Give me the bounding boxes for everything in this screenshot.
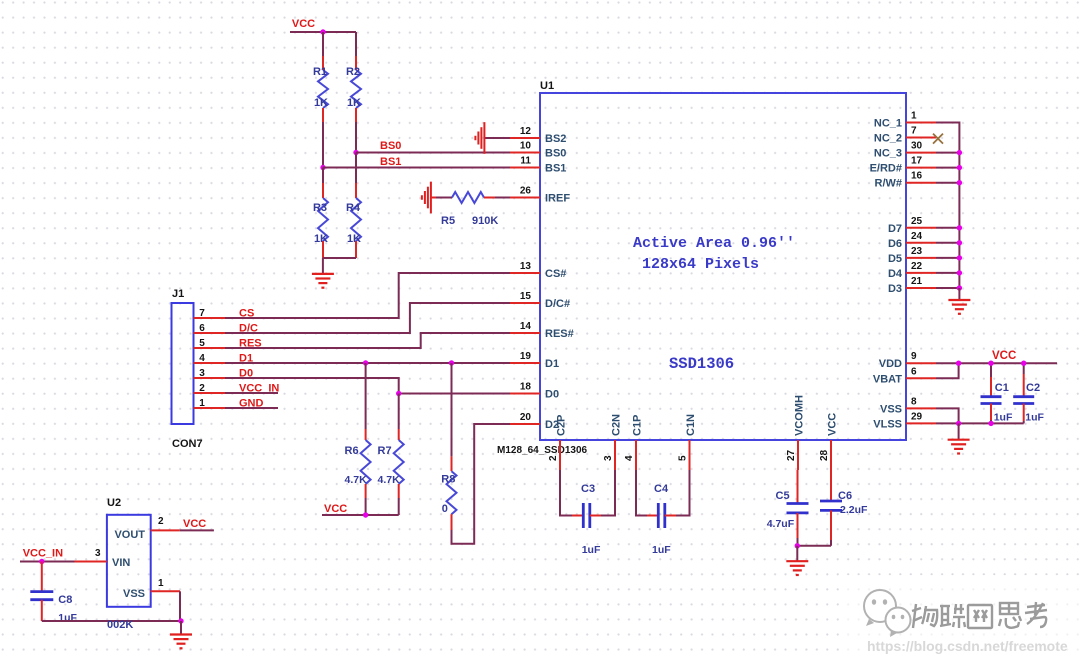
junction bus/D4: [957, 270, 962, 275]
svg-text:R2: R2: [346, 66, 360, 78]
svg-text:NC_3: NC_3: [874, 148, 902, 160]
svg-text:C2N: C2N: [611, 414, 623, 436]
wire BS1 net: [323, 167, 510, 169]
svg-text:7: 7: [199, 308, 205, 319]
svg-text:D3: D3: [888, 283, 902, 295]
U2 pin 1 VSS: [151, 578, 180, 591]
junction bus/D6: [957, 240, 962, 245]
svg-text:R6: R6: [345, 445, 359, 457]
ground (U2): [180, 621, 182, 634]
junction bus/NC_3: [957, 150, 962, 155]
ground (sideways) at BS2: [475, 122, 484, 154]
U1 pin 11 (BS1) left: [510, 156, 566, 175]
svg-text:21: 21: [911, 276, 923, 287]
U1 pin 26 (IREF) left: [510, 186, 570, 205]
wire R3-R4 bottom: [323, 257, 356, 259]
wire BS2 pin to ground: [484, 137, 510, 139]
svg-text:910K: 910K: [472, 215, 498, 227]
wire D7 to bus: [936, 227, 959, 229]
junction R1/BS1: [320, 165, 325, 170]
svg-text:BS1: BS1: [380, 156, 401, 168]
svg-text:3: 3: [603, 455, 614, 461]
wire CS from J1 to CS# pin: [225, 273, 510, 318]
junction bus/R/W#: [957, 180, 962, 185]
wire VBAT up to VDD line: [936, 363, 959, 378]
svg-text:VCC: VCC: [183, 518, 206, 530]
svg-text:26: 26: [520, 186, 532, 197]
J1 pin 1 (GND): [194, 398, 226, 409]
ground (C5/C6): [796, 546, 798, 561]
U1 pin 8 (VSS) right: [880, 396, 936, 415]
watermark logo (chat bubbles): [864, 590, 911, 637]
wire BS0 net: [356, 152, 510, 154]
junction VDD/C2: [1021, 361, 1026, 366]
U1 pin 25 (D7) right: [888, 216, 936, 235]
svg-text:3: 3: [95, 548, 101, 559]
svg-text:1K: 1K: [347, 97, 361, 109]
junction R6/VCC wire: [363, 512, 368, 517]
junction R2/BS0: [353, 150, 358, 155]
svg-text:20: 20: [520, 412, 532, 423]
svg-text:VSS: VSS: [880, 403, 902, 415]
svg-text:U1: U1: [540, 80, 554, 92]
svg-text:IREF: IREF: [545, 193, 570, 205]
wire VSS down to VLSS line: [936, 408, 959, 423]
wire D4 to bus: [936, 272, 959, 274]
U1 pin 7 (NC_2) right: [874, 126, 936, 145]
wire D6 to bus: [936, 242, 959, 244]
wire C3 to C2N: [601, 470, 615, 516]
svg-text:R3: R3: [313, 202, 327, 214]
svg-text:C4: C4: [654, 483, 669, 495]
svg-text:2: 2: [199, 383, 205, 394]
junction VLSS/C1: [988, 421, 993, 426]
J1 pin 4 (D1): [194, 353, 226, 364]
svg-text:22: 22: [911, 261, 923, 272]
svg-text:E/RD#: E/RD#: [870, 163, 902, 175]
svg-text:1uF: 1uF: [582, 544, 601, 556]
U1 pin 24 (D6) right: [888, 231, 936, 250]
power port VCC (R6/R7 bottom): [322, 503, 366, 515]
wire VCC_IN to VIN: [20, 561, 75, 563]
svg-text:4.7K: 4.7K: [345, 474, 368, 486]
U1 pin 16 (R/W#) right: [875, 171, 937, 190]
svg-text:3: 3: [199, 368, 205, 379]
wire C2P down: [560, 470, 572, 516]
resistor R6 4.7K: [345, 363, 371, 515]
wire GND stub from J1: [225, 407, 278, 409]
svg-text:1K: 1K: [347, 233, 361, 245]
svg-text:D1: D1: [545, 358, 559, 370]
capacitor C5 4.7uF: [767, 470, 809, 546]
U1 pin 1 (NC_1) right: [874, 111, 936, 130]
svg-text:NC_2: NC_2: [874, 133, 902, 145]
junction bus/D3: [957, 285, 962, 290]
svg-text:VDD: VDD: [879, 358, 902, 370]
svg-text:C1: C1: [995, 382, 1009, 394]
resistor R2 1K: [346, 32, 361, 122]
svg-text:1uF: 1uF: [1025, 412, 1044, 424]
svg-text:BS2: BS2: [545, 133, 566, 145]
regulator U2 body: [107, 497, 151, 607]
wire D1 from J1 to D1 pin: [225, 362, 510, 364]
wire bus to ground (top right): [958, 288, 960, 300]
svg-text:VLSS: VLSS: [873, 418, 902, 430]
watermark text (CJK glyph shapes): [913, 605, 938, 629]
svg-text:VCOMH: VCOMH: [794, 395, 806, 436]
wire NC_1 to bus: [936, 123, 959, 289]
U1 pin 21 (D3) right: [888, 276, 936, 295]
resistor R3 1K: [313, 168, 328, 259]
U1 pin 22 (D4) right: [888, 261, 936, 280]
svg-text:VCC: VCC: [827, 413, 839, 436]
resistor R5 910K: [431, 192, 498, 227]
svg-text:17: 17: [911, 156, 923, 167]
junction D1/R8: [449, 360, 454, 365]
U1 pin 17 (E/RD#) right: [870, 156, 936, 175]
ground (VSS/VLSS): [958, 423, 960, 439]
wire R8 to D2 pin: [452, 424, 511, 544]
svg-text:13: 13: [520, 261, 532, 272]
svg-text:R1: R1: [313, 66, 327, 78]
U1 pin 5 (C1N) bottom: [678, 414, 698, 470]
ground under R3/R4: [322, 258, 324, 274]
svg-text:https://blog.csdn.net/freemote: https://blog.csdn.net/freemote: [867, 638, 1068, 654]
svg-text:VCC: VCC: [992, 350, 1016, 362]
svg-text:D7: D7: [888, 223, 902, 235]
capacitor C4 1uF: [647, 483, 676, 556]
svg-text:C2: C2: [1026, 382, 1040, 394]
U1 pin 28 (VCC) bottom: [819, 413, 839, 470]
svg-text:C8: C8: [58, 594, 72, 606]
svg-text:4.7K: 4.7K: [378, 474, 401, 486]
wire C4 to C1N: [676, 470, 690, 516]
svg-text:12: 12: [520, 126, 532, 137]
svg-text:4: 4: [199, 353, 205, 364]
resistor R7 4.7K: [378, 394, 404, 516]
U2 pin 2 VOUT: [151, 516, 180, 530]
junction D1/R6: [363, 360, 368, 365]
svg-text:1uF: 1uF: [994, 412, 1013, 424]
wire RES from J1 to RES# pin: [225, 333, 510, 348]
U1 pin 19 (D1) left: [510, 351, 559, 370]
svg-text:1: 1: [199, 398, 205, 409]
svg-text:19: 19: [520, 351, 532, 362]
svg-text:C2P: C2P: [556, 415, 568, 436]
svg-text:D/C#: D/C#: [545, 298, 570, 310]
svg-text:0: 0: [442, 503, 448, 515]
wire VCC_IN stub from J1: [225, 392, 278, 394]
svg-text:D4: D4: [888, 268, 903, 280]
U1 pin 6 (VBAT) right: [873, 366, 936, 385]
junction C5/ground: [795, 543, 800, 548]
svg-text:SSD1306: SSD1306: [669, 355, 734, 373]
connector J1 CON7: [172, 288, 203, 450]
svg-text:11: 11: [520, 156, 531, 167]
svg-text:BS0: BS0: [545, 148, 566, 160]
svg-text:4.7uF: 4.7uF: [767, 518, 795, 530]
junction VSS/VLSS: [956, 421, 961, 426]
U1 pin 13 (CS#) left: [510, 261, 566, 280]
svg-text:18: 18: [520, 382, 532, 393]
ground (sideways) at R5: [422, 182, 431, 214]
svg-text:24: 24: [911, 231, 923, 242]
svg-text:R5: R5: [441, 215, 455, 227]
svg-text:27: 27: [786, 449, 797, 461]
no-connect X on NC_2: [933, 134, 943, 144]
svg-text:R7: R7: [378, 445, 392, 457]
svg-text:1uF: 1uF: [652, 544, 671, 556]
wire VDD line: [936, 362, 1057, 364]
svg-text:4: 4: [624, 455, 635, 461]
capacitor C3 1uF: [572, 483, 601, 556]
wire VOUT to VCC: [180, 529, 214, 531]
svg-text:15: 15: [520, 291, 532, 302]
junction VCC/R1: [320, 29, 325, 34]
J1 pin 6 (D/C): [194, 323, 226, 334]
svg-text:VIN: VIN: [112, 557, 130, 569]
svg-text:VBAT: VBAT: [873, 373, 902, 385]
svg-text:CON7: CON7: [172, 438, 203, 450]
wire D0 from J1 to D0 pin: [225, 378, 510, 394]
svg-text:6: 6: [911, 366, 917, 377]
capacitor C6 2.2uF: [820, 470, 868, 546]
wire VSS down to ground: [179, 591, 181, 621]
wire D3 to bus: [936, 287, 959, 289]
svg-text:M128_64_SSD1306: M128_64_SSD1306: [497, 445, 588, 456]
junction C8/VSS/ground: [178, 618, 183, 623]
svg-text:C6: C6: [838, 490, 852, 502]
svg-text:9: 9: [911, 351, 917, 362]
svg-text:C1P: C1P: [632, 415, 644, 436]
svg-text:30: 30: [911, 141, 923, 152]
U1 pin 27 (VCOMH) bottom: [786, 395, 806, 470]
svg-text:1K: 1K: [314, 233, 328, 245]
U1 pin 23 (D5) right: [888, 246, 936, 265]
wire C8 bottom to ground: [42, 620, 181, 622]
wire R1 to BS1: [322, 122, 324, 168]
svg-text:C5: C5: [776, 490, 790, 502]
watermark backdrop: [840, 575, 1080, 663]
op-amp U1 SSD1306 body: [540, 80, 906, 440]
J1 pin 2 (VCC_IN): [194, 383, 226, 394]
svg-text:BS1: BS1: [545, 163, 566, 175]
wire R5 to IREF pin: [495, 197, 510, 199]
svg-text:U2: U2: [107, 497, 121, 509]
U1 pin 9 (VDD) right: [879, 351, 936, 370]
svg-text:VOUT: VOUT: [114, 529, 145, 541]
junction VCC_IN/C8: [39, 559, 44, 564]
wire VCC to R7 bottom: [366, 514, 399, 516]
wire D5 to bus: [936, 257, 959, 259]
svg-text:R4: R4: [346, 202, 361, 214]
junction VDD/VBAT: [956, 361, 961, 366]
svg-text:R/W#: R/W#: [875, 178, 903, 190]
svg-text:1: 1: [158, 578, 164, 589]
U1 pin 4 (C1P) bottom: [624, 415, 644, 470]
capacitor C1 1uF: [981, 363, 1013, 423]
junction VDD/C1: [988, 361, 993, 366]
svg-text:RES#: RES#: [545, 328, 574, 340]
svg-text:128x64 Pixels: 128x64 Pixels: [642, 256, 759, 273]
svg-text:D5: D5: [888, 253, 902, 265]
svg-text:2: 2: [548, 455, 559, 461]
U2 pin 3 VIN: [75, 548, 107, 562]
capacitor C8 1uF: [30, 562, 77, 625]
U1 pin 30 (NC_3) right: [874, 141, 936, 160]
capacitor C2 1uF: [1013, 363, 1044, 423]
svg-text:28: 28: [819, 449, 830, 461]
J1 pin 5 (RES): [194, 338, 226, 349]
svg-text:BS0: BS0: [380, 140, 401, 152]
wire E/RD# to bus: [936, 167, 959, 169]
svg-text:R8: R8: [441, 474, 455, 486]
U1 pin 20 (D2) left: [510, 412, 559, 431]
resistor R8 0: [441, 363, 456, 530]
svg-text:C3: C3: [581, 483, 595, 495]
svg-text:VCC_IN: VCC_IN: [23, 548, 63, 560]
svg-text:1uF: 1uF: [58, 612, 77, 624]
svg-text:5: 5: [678, 455, 689, 461]
wire NC_3 to bus: [936, 152, 959, 154]
junction D0/R7: [396, 391, 401, 396]
svg-text:002K: 002K: [107, 619, 133, 631]
J1 pin 7 (CS): [194, 308, 226, 319]
svg-text:VSS: VSS: [123, 588, 145, 600]
svg-text:CS#: CS#: [545, 268, 566, 280]
svg-text:NC_1: NC_1: [874, 118, 902, 130]
svg-text:29: 29: [911, 411, 923, 422]
wire R2 to BS0: [355, 122, 357, 153]
junction bus/E/RD#: [957, 165, 962, 170]
svg-text:2: 2: [158, 516, 164, 527]
wire C5 to C6 bottom: [797, 545, 831, 547]
resistor R1 1K: [313, 32, 328, 122]
svg-text:6: 6: [199, 323, 205, 334]
svg-text:VCC: VCC: [324, 503, 347, 515]
svg-text:23: 23: [911, 246, 923, 257]
wire VLSS line: [936, 422, 1024, 424]
U1 pin 12 (BS2) left: [510, 126, 566, 145]
wire D/C from J1 to D/C# pin: [225, 303, 510, 333]
U1 pin 15 (D/C#) left: [510, 291, 570, 310]
svg-text:Active Area 0.96'': Active Area 0.96'': [633, 235, 795, 252]
J1 pin 3 (D0): [194, 368, 226, 379]
U1 pin 2 (C2P) bottom: [548, 415, 568, 470]
U1 pin 18 (D0) left: [510, 382, 559, 401]
svg-text:C1N: C1N: [685, 414, 697, 436]
svg-text:D6: D6: [888, 238, 902, 250]
svg-text:7: 7: [911, 126, 917, 137]
svg-text:8: 8: [911, 396, 917, 407]
wire R/W# to bus: [936, 182, 959, 184]
svg-text:5: 5: [199, 338, 205, 349]
svg-text:10: 10: [520, 141, 532, 152]
svg-text:14: 14: [520, 321, 532, 332]
wire C1P down: [636, 470, 647, 516]
svg-text:D0: D0: [545, 389, 559, 401]
svg-text:VCC: VCC: [292, 18, 315, 30]
svg-text:1: 1: [911, 111, 917, 122]
junction bus/D7: [957, 225, 962, 230]
svg-text:J1: J1: [172, 288, 184, 300]
U1 pin 10 (BS0) left: [510, 141, 566, 160]
wire VCC to R2: [323, 31, 356, 33]
junction bus/D5: [957, 255, 962, 260]
resistor R4 1K: [346, 153, 361, 259]
U1 pin 3 (C2N) bottom: [603, 414, 623, 470]
power port VCC (top left): [290, 18, 323, 32]
U1 pin 14 (RES#) left: [510, 321, 574, 340]
svg-text:2.2uF: 2.2uF: [840, 504, 868, 516]
U1 pin 29 (VLSS) right: [873, 411, 936, 430]
svg-text:1K: 1K: [314, 97, 328, 109]
svg-text:16: 16: [911, 171, 923, 182]
ground (top right bus): [948, 300, 970, 314]
svg-text:25: 25: [911, 216, 923, 227]
